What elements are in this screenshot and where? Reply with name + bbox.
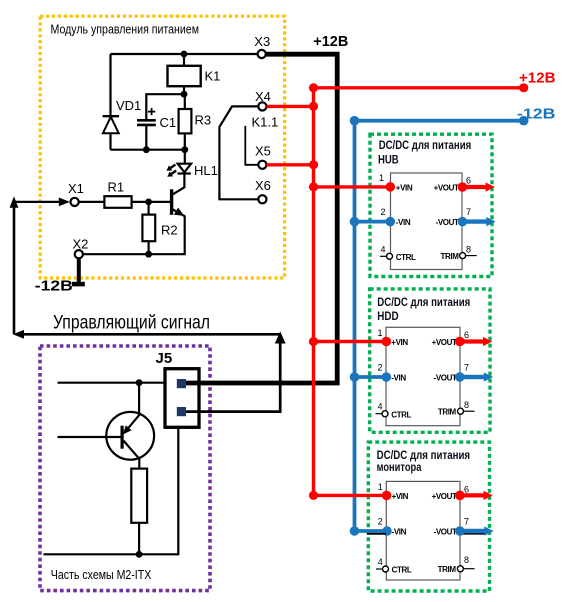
node red HUB feed junction <box>309 182 318 191</box>
relay contact K1.1 blade from X4 <box>219 106 258 199</box>
op-amp U2 DC/DC converter HDD body <box>386 327 460 425</box>
wire +VOUT HUB arrow <box>458 182 468 192</box>
wire Q2 base lead <box>58 436 121 438</box>
node -VIN HUB blue dot <box>386 217 396 227</box>
svg-text:Управляющий сигнал: Управляющий сигнал <box>53 313 210 334</box>
wire X4 red stub <box>267 105 314 108</box>
node blue monitor feed corner <box>350 526 360 536</box>
wire red feed to HUB +VIN <box>314 185 391 188</box>
node red top corner <box>309 83 318 92</box>
svg-text:+12В: +12В <box>313 34 348 50</box>
pin TRIM HDD stub and circle <box>463 410 475 412</box>
node blue top corner <box>350 116 360 126</box>
node K1/C1/R3 junction <box>181 91 188 98</box>
wire K1 top lead <box>183 54 185 66</box>
wire red feed to HDD +VIN <box>314 340 387 343</box>
wire K1 bottom lead <box>183 86 185 94</box>
svg-text:-VIN: -VIN <box>391 373 406 382</box>
svg-text:2: 2 <box>378 363 383 373</box>
svg-text:TRIM: TRIM <box>441 252 460 261</box>
M2-ITX section dashed frame <box>40 346 210 591</box>
wire red +12V top line to label <box>314 86 524 89</box>
terminal X6 <box>258 195 266 203</box>
wire J5 pin1 stub inside M2-ITX <box>58 382 165 384</box>
svg-text:DC/DC для питания: DC/DC для питания <box>379 138 472 152</box>
pin CTRL HDD stub and circle <box>376 413 383 415</box>
pin TRIM HUB stub and circle <box>465 255 477 257</box>
wire blue -12V top line to label <box>355 119 524 123</box>
node blue -12V end dot <box>519 116 529 126</box>
wire X1 to R1 <box>79 201 105 203</box>
svg-text:CTRL: CTRL <box>392 565 412 574</box>
node top rail / K1 junction <box>181 51 188 58</box>
wire blue -12V bus vertical <box>353 121 357 531</box>
wire Q2 top lead <box>138 383 140 416</box>
wire bottom rail VD1-C1-R3 <box>111 149 185 151</box>
wire LED top lead <box>184 150 186 164</box>
svg-text:7: 7 <box>464 517 469 527</box>
svg-text:VD1: VD1 <box>116 98 141 113</box>
svg-text:6: 6 <box>464 330 469 340</box>
wire -VOUT HUB arrow <box>458 217 468 227</box>
resistor R1 <box>104 196 131 208</box>
wire J5 pin2 to control line <box>186 341 280 412</box>
wire -VOUT monitor arrow <box>455 526 465 536</box>
svg-text:X2: X2 <box>73 237 89 252</box>
node +VIN monitor red dot <box>382 491 392 501</box>
capacitor C1 <box>137 108 176 130</box>
wire control signal left vertical <box>13 206 16 334</box>
svg-text:X4: X4 <box>255 89 271 104</box>
svg-text:DC/DC для питания: DC/DC для питания <box>377 295 470 309</box>
node -VIN HDD blue dot <box>382 372 392 382</box>
node blue HUB feed junction <box>350 217 360 227</box>
pin 2 monitor stub under blue wire <box>367 533 386 535</box>
wire C1 bottom lead <box>145 125 147 150</box>
wire resistor bottom lead <box>138 523 140 555</box>
svg-text:+VOUT: +VOUT <box>432 338 457 347</box>
svg-text:X3: X3 <box>254 34 270 49</box>
svg-text:8: 8 <box>464 555 469 565</box>
node C1 bottom junction <box>143 146 150 153</box>
svg-text:-VIN: -VIN <box>396 218 411 227</box>
node red X5 junction <box>309 160 318 169</box>
wire VD1 branch vertical <box>109 54 111 150</box>
svg-text:X1: X1 <box>68 181 84 196</box>
node red +12V end dot <box>519 83 528 92</box>
node bottom rail junction <box>136 551 143 558</box>
pin CTRL HUB stub and circle <box>380 255 387 257</box>
DC/DC HUB block dashed frame <box>370 134 492 276</box>
svg-text:HDD: HDD <box>377 309 399 323</box>
resistor R2 <box>142 215 155 242</box>
node blue HDD feed junction <box>350 372 360 382</box>
node red HDD feed junction <box>309 337 318 346</box>
svg-text:+VIN: +VIN <box>391 338 408 347</box>
arrowhead J5 signal up <box>275 332 286 344</box>
op-amp U3 DC/DC converter monitor body <box>386 481 460 580</box>
transistor Q2 <box>106 412 154 460</box>
svg-text:-VOUT: -VOUT <box>436 218 459 227</box>
wire red +12V bus vertical <box>312 88 315 496</box>
wire LED cathode to Q1 collector <box>173 173 184 194</box>
svg-text:-12В: -12В <box>517 106 556 122</box>
resistor R3 <box>179 109 192 133</box>
terminal X4 <box>258 102 266 110</box>
node +VIN HDD red dot <box>382 337 392 347</box>
svg-text:+VOUT: +VOUT <box>434 184 459 193</box>
svg-text:X6: X6 <box>255 178 271 193</box>
svg-text:6: 6 <box>464 484 469 494</box>
wire R1 to Q1 base <box>132 201 171 203</box>
pin 7 monitor stub under blue arrow <box>459 533 487 535</box>
wire C1 branch <box>146 94 184 119</box>
node +VIN HUB red dot <box>386 182 396 192</box>
svg-text:2: 2 <box>378 517 383 527</box>
svg-text:4: 4 <box>378 402 383 412</box>
ground bar -12V <box>72 282 85 287</box>
wire top rail <box>111 53 258 55</box>
wire red feed to monitor +VIN <box>314 494 387 497</box>
arrowhead control left <box>13 330 24 339</box>
svg-text:7: 7 <box>464 363 469 373</box>
svg-text:HL1: HL1 <box>194 163 218 178</box>
svg-text:7: 7 <box>466 207 471 217</box>
svg-text:Модуль управления питанием: Модуль управления питанием <box>51 23 200 37</box>
op-amp U1 DC/DC converter HUB body <box>391 173 463 270</box>
wire control signal to X1 <box>13 201 62 203</box>
wire Q2 collector to resistor <box>138 458 140 468</box>
svg-text:+12В: +12В <box>519 71 556 87</box>
node red monitor feed corner <box>309 491 318 500</box>
node Q2 collector junction <box>136 379 143 386</box>
arrowhead into X1 <box>59 198 70 207</box>
DC/DC HDD block dashed frame <box>370 289 490 432</box>
node red X4 junction <box>309 102 318 111</box>
svg-text:Часть схемы M2-ITX: Часть схемы M2-ITX <box>51 568 152 582</box>
svg-text:+VOUT: +VOUT <box>432 492 457 501</box>
svg-text:-VOUT: -VOUT <box>434 527 457 536</box>
svg-text:TRIM: TRIM <box>438 408 457 417</box>
connector J5 <box>156 350 200 428</box>
wire K1.1 fixed contact to X5 <box>245 126 258 165</box>
wire thick +12V feed X3 to J5 pin1 <box>186 54 337 383</box>
svg-text:R2: R2 <box>161 222 178 237</box>
svg-text:4: 4 <box>378 557 383 567</box>
svg-text:R1: R1 <box>108 180 125 195</box>
svg-text:J5: J5 <box>156 350 173 367</box>
wire blue feed to monitor -VIN <box>355 529 387 533</box>
terminal X5 <box>258 161 266 169</box>
wire R3 bottom lead <box>184 133 186 149</box>
wire blue feed to HUB -VIN <box>355 220 391 224</box>
svg-text:TRIM: TRIM <box>438 565 457 574</box>
svg-text:R3: R3 <box>195 113 212 128</box>
svg-text:-VIN: -VIN <box>392 527 407 536</box>
svg-text:-12В: -12В <box>35 279 73 295</box>
wire +VOUT monitor arrow <box>455 491 465 501</box>
svg-text:CTRL: CTRL <box>396 253 416 262</box>
DC/DC monitor block dashed frame <box>368 442 489 591</box>
svg-text:K1.1: K1.1 <box>252 114 279 129</box>
svg-text:4: 4 <box>381 244 386 254</box>
svg-text:+VIN: +VIN <box>396 183 413 192</box>
svg-text:1: 1 <box>379 173 384 183</box>
wire Q1 emitter to X2 rail <box>83 216 185 255</box>
pin CTRL monitor stub and circle <box>376 568 383 570</box>
node -VIN monitor blue dot <box>382 526 392 536</box>
svg-text:CTRL: CTRL <box>391 410 411 419</box>
wire blue feed to HDD -VIN <box>355 375 387 379</box>
terminal X3 <box>258 50 266 58</box>
transistor Q1 <box>172 189 185 216</box>
wire control signal horizontal <box>22 333 280 336</box>
svg-text:2: 2 <box>381 207 386 217</box>
terminal X1 <box>71 198 79 206</box>
diode VD1 <box>103 98 142 133</box>
relay K1 <box>168 66 201 86</box>
wire -VOUT HDD arrow <box>455 372 465 382</box>
svg-text:+VIN: +VIN <box>392 492 409 501</box>
wire R3 top lead <box>184 94 186 109</box>
svg-text:монитора: монитора <box>377 460 422 474</box>
svg-text:8: 8 <box>464 400 469 410</box>
node R3 bottom junction <box>181 146 188 153</box>
svg-text:8: 8 <box>466 244 471 254</box>
svg-text:K1: K1 <box>205 69 221 84</box>
svg-text:-VOUT: -VOUT <box>434 373 457 382</box>
power management module dashed frame <box>40 16 284 278</box>
node R2 bottom junction <box>145 251 152 258</box>
svg-text:C1: C1 <box>160 115 177 130</box>
wire bottom rail M2-ITX <box>44 427 179 554</box>
svg-text:1: 1 <box>378 482 383 492</box>
wire X2 ground drop <box>77 258 81 284</box>
node base/R2 junction <box>145 199 152 206</box>
wire X5 red stub <box>267 163 314 166</box>
pin TRIM monitor stub and circle <box>463 568 475 570</box>
svg-text:HUB: HUB <box>378 153 399 167</box>
terminal X2 <box>75 250 83 258</box>
LED HL1 <box>167 163 218 178</box>
svg-text:X5: X5 <box>255 143 271 158</box>
wire +VOUT HDD arrow <box>455 337 465 347</box>
svg-text:6: 6 <box>466 175 471 185</box>
resistor in M2-ITX <box>131 469 147 523</box>
wire R2 bottom lead <box>148 241 150 254</box>
svg-text:1: 1 <box>378 328 383 338</box>
arrowhead control up <box>10 196 19 208</box>
wire R2 top lead <box>148 202 150 215</box>
